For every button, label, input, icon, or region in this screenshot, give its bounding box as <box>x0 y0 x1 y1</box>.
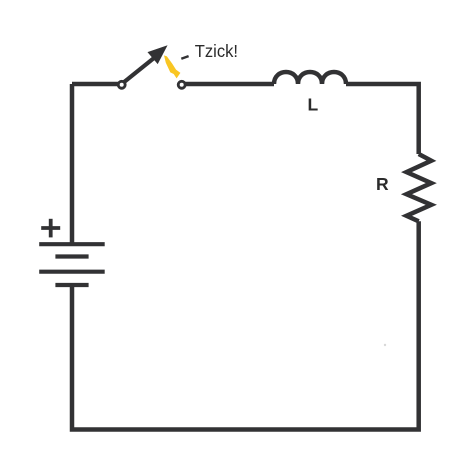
svg-text:L: L <box>308 95 319 115</box>
svg-text:Tzick!: Tzick! <box>195 41 238 61</box>
svg-text:R: R <box>376 174 389 194</box>
